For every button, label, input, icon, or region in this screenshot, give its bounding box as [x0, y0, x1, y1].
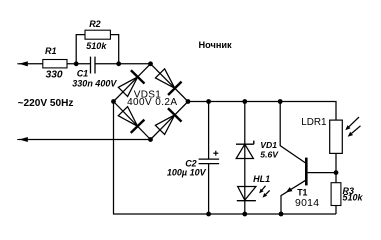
- wire R1 to C1: [67, 63, 91, 65]
- svg-text:HL1: HL1: [253, 174, 270, 184]
- diode upper-left (left corner to top corner): [116, 70, 144, 98]
- wire T1 collector lead: [280, 102, 305, 164]
- svg-text:Ночник: Ночник: [199, 40, 233, 50]
- svg-text:R1: R1: [45, 46, 57, 56]
- svg-text:9014: 9014: [295, 198, 319, 209]
- mains terminal arrow 2: [19, 137, 28, 142]
- wire LDR1 bottom lead: [335, 153, 337, 172]
- node bridge bottom corner: [148, 137, 153, 142]
- svg-text:510k: 510k: [343, 193, 364, 203]
- wire positive rail from bridge right corner: [188, 102, 336, 121]
- node collector top: [278, 99, 283, 104]
- node base-divider junction: [334, 170, 339, 175]
- diode upper-right (top corner to right corner): [153, 67, 181, 95]
- wire R2 branch left riser: [76, 35, 85, 64]
- bridge rectifier VDS1 diamond arms: [114, 64, 151, 102]
- node C2 top: [206, 99, 211, 104]
- LDR1 light arrows: [345, 117, 360, 137]
- wire bridge left corner down to negative rail: [114, 102, 337, 215]
- LED HL1: [237, 187, 256, 201]
- svg-text:LDR1: LDR1: [301, 117, 327, 128]
- wire R3 bottom lead: [335, 206, 337, 215]
- T1 emitter arrow: [286, 187, 293, 192]
- svg-text:5.6V: 5.6V: [260, 149, 279, 159]
- wire zener to LED: [244, 159, 246, 201]
- node bridge top corner: [148, 61, 153, 66]
- wire C2 bottom lead: [208, 164, 210, 214]
- wire R2 branch right riser: [110, 35, 118, 64]
- svg-text:510k: 510k: [86, 41, 107, 51]
- node C2 bottom: [206, 212, 211, 217]
- svg-text:VD1: VD1: [260, 140, 277, 150]
- C2 plus sign: [213, 151, 218, 156]
- wire T1 emitter lead: [281, 180, 306, 214]
- resistor R2: [85, 30, 110, 39]
- wire LED bottom lead: [244, 200, 246, 214]
- capacitor C2 polarized: [199, 158, 220, 160]
- wire C1 to bridge top: [95, 63, 151, 65]
- mains terminal arrow 1: [19, 61, 28, 66]
- node junction R2 left: [74, 61, 79, 66]
- capacitor C1: [90, 57, 92, 74]
- node bridge left corner: [111, 99, 116, 104]
- wire mains top lead: [19, 63, 43, 65]
- svg-text:330: 330: [46, 70, 63, 81]
- resistor R3: [331, 183, 341, 206]
- node junction R2 right: [116, 61, 121, 66]
- node bridge right corner: [186, 99, 191, 104]
- svg-text:~220V 50Hz: ~220V 50Hz: [18, 98, 74, 109]
- svg-text:100µ 10V: 100µ 10V: [167, 167, 207, 177]
- wire C2 top lead: [208, 102, 210, 160]
- diode lower-left (left corner to bottom corner): [116, 105, 144, 133]
- svg-text:T1: T1: [297, 188, 307, 198]
- svg-text:330n 400V: 330n 400V: [72, 78, 117, 88]
- svg-text:400V 0.2A: 400V 0.2A: [127, 97, 177, 108]
- zener diode VD1: [236, 141, 254, 159]
- wire mains bottom lead from bridge bottom corner: [19, 139, 151, 141]
- wire T1 base lead: [308, 172, 336, 174]
- node zener chain top: [242, 99, 247, 104]
- HL1 light arrows: [259, 186, 270, 198]
- svg-text:R2: R2: [89, 19, 101, 29]
- wire zener chain top lead: [244, 102, 246, 159]
- resistor R1: [43, 60, 67, 68]
- diode lower-right (bottom corner to right corner): [153, 108, 181, 136]
- photoresistor LDR1: [330, 120, 343, 153]
- node LED bottom: [242, 212, 247, 217]
- node emitter bottom: [279, 212, 284, 217]
- svg-text:C1: C1: [77, 69, 89, 79]
- wire R3 top lead: [335, 173, 337, 183]
- transistor T1 base bar: [305, 158, 308, 186]
